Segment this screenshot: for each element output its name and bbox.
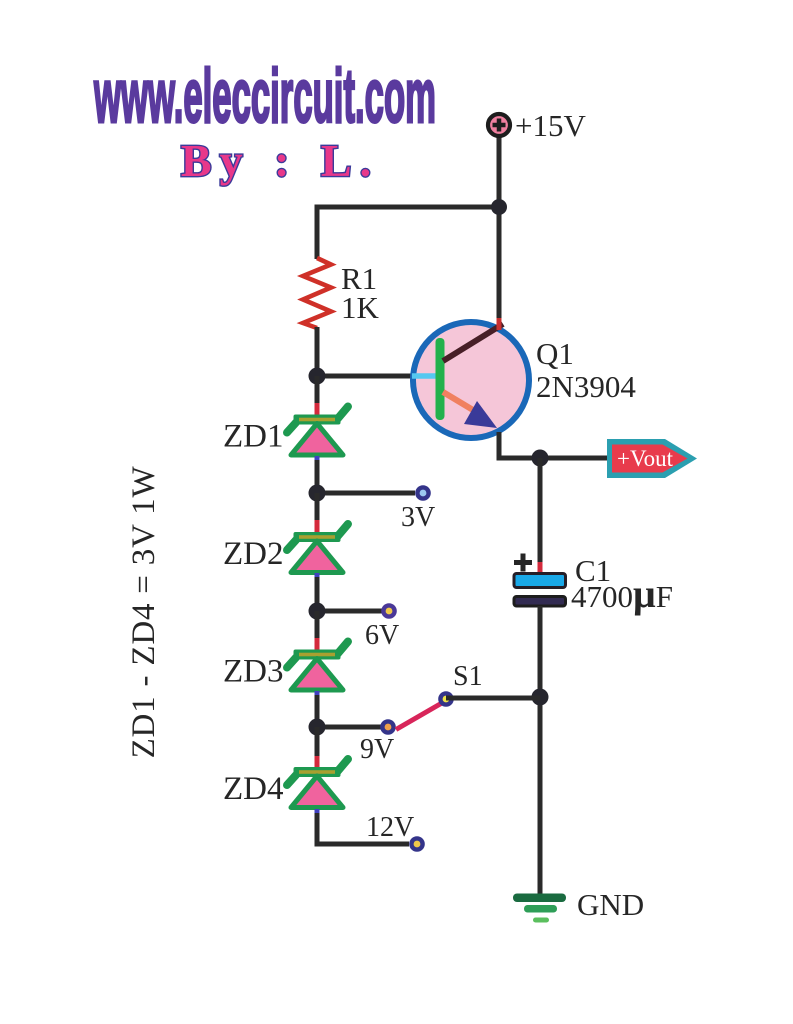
svg-text:+15V: +15V bbox=[515, 108, 586, 143]
junction S1 node bbox=[532, 689, 549, 706]
label S1 bbox=[453, 661, 483, 692]
zener ZD2 bbox=[287, 524, 348, 573]
wire top horizontal bbox=[317, 207, 499, 259]
wire C1 to ground bbox=[538, 606, 543, 894]
label R1 bbox=[341, 261, 377, 296]
svg-text:+Vout: +Vout bbox=[617, 446, 674, 471]
logo www.eleccircuit.com bbox=[94, 54, 436, 139]
svg-text:2N3904: 2N3904 bbox=[536, 369, 636, 404]
svg-text:3V: 3V bbox=[401, 502, 435, 533]
node +Vout flag bbox=[607, 439, 697, 478]
label ZD3 bbox=[223, 654, 284, 690]
label 6V bbox=[365, 620, 399, 651]
pin tip ZD2 anode bbox=[315, 520, 320, 533]
label 3V bbox=[401, 502, 435, 533]
pin tip ZD3 anode bbox=[315, 638, 320, 651]
resistor R1 bbox=[303, 258, 331, 328]
terminal 12V bbox=[409, 836, 425, 852]
pin tip ZD1 cathode bbox=[315, 456, 320, 465]
label 4700uF bbox=[571, 571, 673, 616]
junction top node bbox=[491, 199, 507, 215]
pin tip ZD4 anode bbox=[315, 756, 320, 769]
terminal S1 pivot bbox=[438, 691, 454, 707]
wire ZD4 to 12V terminal bbox=[317, 813, 409, 844]
svg-text:ZD1 - ZD4 = 3V 1W: ZD1 - ZD4 = 3V 1W bbox=[126, 466, 162, 759]
wire base horizontal bbox=[317, 374, 414, 379]
wire C1 top lead bbox=[538, 458, 543, 564]
terminal +15V bbox=[488, 114, 510, 136]
zener ZD1 bbox=[287, 407, 348, 456]
wire 3V tap bbox=[317, 491, 415, 496]
svg-text:ZD4: ZD4 bbox=[223, 771, 284, 807]
label 9V bbox=[360, 734, 394, 765]
pin tip ZD4 cathode bbox=[315, 809, 320, 818]
pin tip ZD2 cathode bbox=[315, 573, 320, 582]
wire emitter to Vout bbox=[499, 432, 607, 458]
svg-text:ZD3: ZD3 bbox=[223, 654, 284, 690]
note ZD1 - ZD4 = 3V 1W bbox=[126, 466, 162, 759]
capacitor C1 bbox=[514, 554, 566, 607]
svg-text:By : L.: By : L. bbox=[181, 135, 379, 186]
junction base node bbox=[309, 368, 326, 385]
wire R1 bottom to base node bbox=[315, 327, 320, 377]
junction 3V node bbox=[309, 485, 326, 502]
terminal 6V bbox=[381, 603, 397, 619]
svg-text:S1: S1 bbox=[453, 661, 483, 692]
label ZD2 bbox=[223, 536, 284, 572]
junction 9V node bbox=[309, 719, 326, 736]
switch S1 blade bbox=[396, 704, 441, 730]
label +15V bbox=[515, 108, 586, 143]
pin tip ZD1 anode bbox=[315, 403, 320, 416]
label ZD4 bbox=[223, 771, 284, 807]
wire ZD1 to 3V node bbox=[315, 460, 320, 493]
wire 9V tap bbox=[317, 725, 381, 730]
zener chain: base node down to ZD1 bbox=[315, 376, 320, 405]
svg-text:www.eleccircuit.com: www.eleccircuit.com bbox=[94, 54, 436, 139]
svg-text:ZD2: ZD2 bbox=[223, 536, 284, 572]
label ZD1 bbox=[223, 419, 284, 455]
transistor Q1 bbox=[412, 318, 529, 438]
svg-text:6V: 6V bbox=[365, 620, 399, 651]
wire 3V node to ZD2 bbox=[315, 493, 320, 522]
junction 6V node bbox=[309, 603, 326, 620]
wire 9V node to ZD4 bbox=[315, 727, 320, 758]
svg-text:Q1: Q1 bbox=[536, 336, 574, 371]
label 1K bbox=[341, 290, 380, 325]
wire 6V node to ZD3 bbox=[315, 611, 320, 640]
svg-text:GND: GND bbox=[577, 887, 644, 922]
pin tip ZD3 cathode bbox=[315, 691, 320, 700]
wire collector vertical bbox=[497, 207, 502, 327]
zener ZD3 bbox=[287, 642, 348, 691]
svg-text:1K: 1K bbox=[341, 290, 380, 325]
label GND bbox=[577, 887, 644, 922]
zener ZD4 bbox=[287, 759, 348, 808]
svg-text:9V: 9V bbox=[360, 734, 394, 765]
label C1 bbox=[575, 553, 611, 588]
wire S1 to C1 branch bbox=[446, 696, 540, 701]
ground bbox=[513, 894, 566, 923]
svg-text:12V: 12V bbox=[366, 812, 414, 843]
label 2N3904 bbox=[536, 369, 636, 404]
wire ZD3 to 9V node bbox=[315, 695, 320, 727]
wire +15V to top junction bbox=[497, 130, 502, 207]
byline By : L. bbox=[181, 135, 379, 186]
pin tip C1 positive bbox=[538, 562, 543, 573]
label 12V bbox=[366, 812, 414, 843]
terminal 3V bbox=[415, 485, 431, 501]
wire 6V tap bbox=[317, 609, 382, 614]
junction Vout/C1 node bbox=[532, 450, 549, 467]
terminal 9V bbox=[380, 719, 396, 735]
wire ZD2 to 6V node bbox=[315, 577, 320, 611]
svg-text:ZD1: ZD1 bbox=[223, 419, 284, 455]
label Q1 bbox=[536, 336, 574, 371]
